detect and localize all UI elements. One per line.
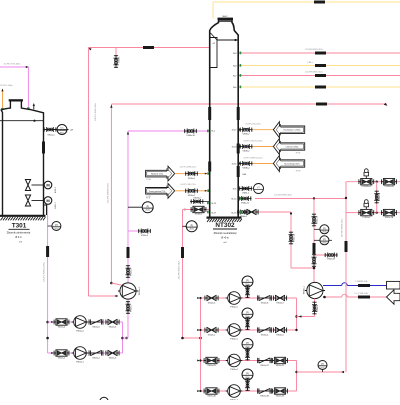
svg-text:MH-2: MH-2: [222, 16, 228, 18]
svg-text:125-PE-WW5-302x: 125-PE-WW5-302x: [305, 72, 324, 74]
svg-text:N-16: N-16: [232, 147, 238, 149]
svg-text:V302b-1: V302b-1: [195, 213, 202, 215]
svg-text:Ø =9 m: Ø =9 m: [221, 238, 229, 240]
svg-text:HTIB: HTIB: [146, 196, 151, 198]
svg-text:V302a-4: V302a-4: [58, 327, 66, 329]
svg-text:V302x-4: V302x-4: [261, 335, 269, 337]
svg-text:LIC: LIC: [60, 128, 64, 130]
svg-text:V302x-5: V302x-5: [276, 335, 284, 337]
svg-text:V302x-2: V302x-2: [208, 335, 216, 337]
svg-text:201x: 201x: [322, 243, 326, 245]
svg-text:V308x-2: V308x-2: [242, 134, 249, 136]
svg-text:V302x-36: V302x-36: [207, 396, 216, 398]
svg-text:201x: 201x: [320, 367, 324, 369]
svg-text:150-PE-WW6-302x: 150-PE-WW6-302x: [178, 260, 180, 280]
svg-text:V302a-3: V302a-3: [109, 358, 117, 360]
svg-text:N-10: N-10: [232, 199, 238, 201]
svg-text:NT302: NT302: [215, 222, 235, 229]
svg-text:N-27: N-27: [212, 213, 218, 215]
svg-text:V302x-8: V302x-8: [261, 303, 269, 305]
svg-text:201x: 201x: [54, 228, 58, 230]
svg-text:V308x-2: V308x-2: [242, 168, 249, 170]
svg-text:K301-1: K301-1: [55, 202, 57, 208]
svg-text:V302x-38: V302x-38: [260, 396, 269, 398]
svg-text:180-PL-W04-306x: 180-PL-W04-306x: [95, 102, 97, 121]
svg-text:TV302x-2b: TV302x-2b: [384, 186, 393, 188]
svg-text:N-12: N-12: [212, 203, 218, 205]
svg-text:301x: 301x: [60, 133, 64, 135]
svg-text:K301-2: K301-2: [55, 187, 57, 193]
svg-text:20-PP-CURE-211x: 20-PP-CURE-211x: [180, 167, 197, 169]
svg-text:HH1: HH1: [243, 174, 247, 176]
svg-text:PI: PI: [321, 363, 324, 366]
svg-text:V302x-13: V302x-13: [317, 216, 319, 224]
svg-text:Ø 3 m: Ø 3 m: [15, 237, 21, 239]
svg-text:HTIB: HTIB: [146, 179, 151, 181]
svg-text:Neutralizator C7200x: Neutralizator C7200x: [284, 129, 301, 132]
svg-text:W302a-1: W302a-1: [304, 285, 306, 294]
svg-text:PI: PI: [246, 312, 249, 315]
svg-text:HTIB: HTIB: [296, 153, 301, 155]
svg-text:Zbiornik obniżezienia: Zbiornik obniżezienia: [7, 232, 31, 235]
svg-text:V302a-5: V302a-5: [92, 327, 100, 329]
svg-text:Wodorotl. (Ols): Wodorotl. (Ols): [151, 173, 163, 176]
svg-text:125-PE-WW3-302x: 125-PE-WW3-302x: [305, 49, 324, 51]
svg-text:V302x-22: V302x-22: [260, 365, 269, 367]
svg-text:125-PL-WW04-306x: 125-PL-WW04-306x: [44, 261, 46, 282]
svg-text:V302x-9: V302x-9: [317, 305, 319, 312]
svg-text:Na-herbesytul 50%: Na-herbesytul 50%: [284, 163, 300, 166]
svg-text:201x: 201x: [146, 210, 150, 212]
svg-text:V302a-8: V302a-8: [131, 268, 133, 276]
svg-text:7-7/AWB-70A: 7-7/AWB-70A: [355, 280, 368, 283]
svg-text:N-17: N-17: [232, 130, 238, 132]
svg-text:1-BB-x: 1-BB-x: [307, 62, 313, 64]
svg-text:V302b-2: V302b-2: [193, 198, 200, 200]
svg-text:Chlorek C7200x: Chlorek C7200x: [286, 147, 299, 149]
svg-text:PI: PI: [191, 224, 194, 227]
svg-text:W302a-1: W302a-1: [139, 286, 141, 295]
svg-text:V306i-1: V306i-1: [242, 193, 249, 195]
svg-text:PI: PI: [246, 342, 249, 345]
svg-text:V302x-3: V302x-3: [141, 235, 148, 237]
svg-text:V303a-2: V303a-2: [188, 195, 195, 197]
svg-text:V302x-14: V302x-14: [379, 193, 381, 201]
svg-text:25-PE-L10Bx: 25-PE-L10Bx: [0, 85, 13, 87]
svg-text:20-PP-CG6O13-209x: 20-PP-CG6O13-209x: [243, 141, 262, 143]
svg-text:HTIB: HTIB: [296, 171, 301, 173]
svg-text:V302x-7: V302x-7: [131, 304, 133, 312]
svg-text:PI: PI: [55, 224, 58, 227]
svg-text:PI: PI: [323, 238, 326, 241]
svg-text:P302a-2: P302a-2: [76, 331, 84, 333]
svg-text:CY302x-1: CY302x-1: [362, 217, 370, 219]
svg-text:P302x-1: P302x-1: [230, 339, 238, 341]
svg-text:PI: PI: [323, 227, 326, 230]
svg-text:V302x-12: V302x-12: [294, 234, 296, 242]
svg-text:N-13: N-13: [232, 213, 238, 215]
svg-text:V304x-W: V304x-W: [186, 135, 194, 137]
svg-text:V302a-1: V302a-1: [58, 358, 66, 360]
svg-text:PI: PI: [246, 373, 249, 376]
svg-text:20-PP-CNF-212x: 20-PP-CNF-212x: [180, 184, 195, 186]
svg-text:V306x-11: V306x-11: [241, 202, 249, 204]
svg-text:130-PE-WW8-302x: 130-PE-WW8-302x: [342, 218, 344, 238]
svg-text:P302x-2: P302x-2: [230, 307, 238, 309]
svg-text:V302a-6: V302a-6: [109, 327, 117, 329]
svg-text:20-PP-CN5-209x: 20-PP-CN5-209x: [245, 124, 260, 126]
svg-text:PI: PI: [246, 280, 249, 283]
svg-text:V302a-2: V302a-2: [92, 358, 100, 360]
svg-text:125-PE-WW8-302x: 125-PE-WW8-302x: [274, 195, 293, 197]
svg-text:CY302Ex-2: CY302Ex-2: [361, 186, 371, 188]
svg-text:PI: PI: [147, 205, 150, 208]
svg-text:V302x-26: V302x-26: [207, 365, 216, 367]
svg-text:125-PE-WW88-302x: 125-PE-WW88-302x: [108, 182, 110, 203]
svg-text:P302x-4: P302x-4: [230, 369, 238, 371]
svg-text:N-15: N-15: [232, 164, 238, 166]
svg-text:V302x-W: V302x-W: [327, 259, 335, 261]
svg-text:V301a-1: V301a-1: [47, 134, 54, 136]
svg-text:20-PP-CH3PO4-210x: 20-PP-CH3PO4-210x: [243, 158, 262, 160]
svg-text:V302x-39: V302x-39: [276, 396, 285, 398]
svg-text:T301: T301: [12, 223, 27, 230]
svg-text:Trociny pieclow (7/3): Trociny pieclow (7/3): [149, 191, 166, 193]
svg-text:V302x-2E: V302x-2E: [385, 217, 394, 219]
svg-text:P302a-1: P302a-1: [76, 362, 84, 364]
svg-text:201x: 201x: [190, 229, 194, 231]
svg-text:V302x-25: V302x-25: [276, 365, 285, 367]
svg-text:+12: +12: [212, 43, 215, 45]
svg-text:V308x-2: V308x-2: [242, 151, 249, 153]
svg-text:V302x-6: V302x-6: [208, 303, 216, 305]
svg-text:Zbiornik neutralizacji: Zbiornik neutralizacji: [214, 232, 237, 235]
svg-text:7-7-Y-WB-70A: 7-7-Y-WB-70A: [354, 292, 368, 295]
svg-text:25-PE-PCH-306x: 25-PE-PCH-306x: [4, 64, 22, 66]
svg-text:V309-1: V309-1: [119, 56, 121, 63]
svg-text:V303a-1: V303a-1: [188, 178, 195, 180]
svg-text:V302x-9: V302x-9: [276, 303, 284, 305]
svg-text:201x: 201x: [322, 232, 326, 234]
